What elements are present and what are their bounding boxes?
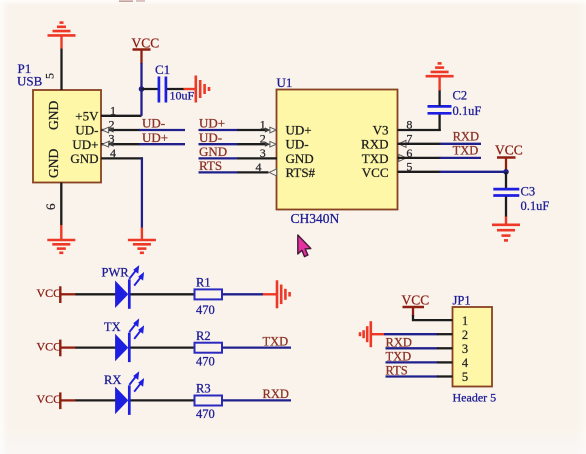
net label RTS at JP1 pin 5 — [386, 364, 408, 378]
svg-text:Header 5: Header 5 — [453, 391, 497, 405]
svg-text:GND: GND — [46, 149, 61, 178]
svg-text:RTS: RTS — [386, 364, 408, 378]
junction node VCC/C3 — [503, 169, 509, 175]
P1 pin 5 wire — [60, 48, 62, 90]
power port VCC (top) — [132, 36, 160, 65]
capacitor C1 — [142, 77, 185, 103]
svg-text:RXD: RXD — [361, 137, 388, 152]
svg-text:1: 1 — [462, 314, 468, 328]
svg-text:470: 470 — [196, 354, 215, 368]
svg-text:470: 470 — [196, 303, 215, 317]
svg-text:TXD: TXD — [263, 334, 289, 348]
LED PWR label — [102, 266, 130, 280]
P1 pin 3 wire — [101, 143, 185, 145]
svg-text:R3: R3 — [196, 382, 211, 396]
svg-text:UD+: UD+ — [286, 123, 312, 138]
U1 pin 4 wire — [199, 171, 269, 173]
svg-text:R2: R2 — [196, 329, 211, 343]
net label UD- at P1 pin 2 — [142, 116, 165, 131]
svg-text:TXD: TXD — [453, 143, 479, 157]
svg-text:C3: C3 — [521, 185, 536, 199]
U1 pin 3 wire — [199, 157, 278, 159]
P1 pin 1 wire — [101, 115, 142, 117]
connector P1 box — [33, 90, 101, 183]
header JP1 box — [453, 307, 493, 387]
C3 value label 0.1uF — [521, 199, 550, 213]
LED PWR (D1) — [75, 265, 195, 309]
svg-text:UD-: UD- — [142, 116, 165, 131]
P1 pin 5 number — [43, 73, 57, 79]
U1 designator label — [277, 75, 293, 90]
JP1 designator label — [453, 294, 471, 308]
P1 pin 4 number — [110, 146, 116, 160]
svg-text:3: 3 — [462, 342, 468, 356]
net label UD+ at P1 pin 3 — [142, 130, 168, 145]
ground at C1 (sideways right) — [184, 76, 210, 103]
resistor R3 — [195, 396, 292, 406]
capacitor C2 — [428, 90, 452, 113]
power port VCC (LED TX row) — [37, 339, 76, 356]
U1 pin 1 number — [260, 117, 266, 131]
JP1 pin 2 wire — [384, 333, 453, 335]
svg-text:5: 5 — [462, 370, 468, 384]
U1 pin 7 wire — [398, 143, 482, 145]
svg-text:TXD: TXD — [386, 349, 412, 363]
C1 designator label — [155, 62, 170, 77]
svg-text:TXD: TXD — [362, 151, 389, 166]
ground at R1 (sideways right) — [263, 280, 290, 308]
svg-text:RXD: RXD — [386, 335, 412, 349]
P1 pin 4 name GND — [70, 151, 98, 166]
P1 pin 6 wire — [60, 183, 62, 226]
svg-text:V3: V3 — [373, 123, 389, 138]
U1 pin 6 number — [406, 146, 412, 160]
power port VCC (JP1) — [402, 293, 430, 317]
power port VCC (right) — [495, 143, 523, 172]
svg-text:VCC: VCC — [37, 392, 62, 406]
JP1 pin 1 wire — [413, 315, 453, 320]
U1 comment label CH340N — [291, 211, 340, 226]
svg-text:470: 470 — [196, 407, 215, 421]
svg-text:4: 4 — [462, 356, 469, 370]
svg-text:UD+: UD+ — [199, 116, 225, 131]
net label TXD (LED row) — [263, 334, 289, 348]
power port VCC (LED RX row) — [37, 392, 76, 409]
P1 pin 2 wire — [101, 129, 185, 131]
svg-text:2: 2 — [462, 328, 468, 342]
U1 pin 5 name VCC — [362, 165, 389, 180]
R3 designator label — [196, 382, 211, 396]
ground at P1 pin 5 (inverted earth) — [48, 23, 76, 49]
JP1 pin 2 number — [462, 328, 468, 342]
U1 pin 1 wire — [199, 129, 267, 131]
svg-text:UD-: UD- — [75, 123, 98, 138]
svg-text:VCC: VCC — [132, 36, 160, 51]
svg-text:10uF: 10uF — [170, 89, 195, 103]
ground at P1 pin 6 — [47, 225, 75, 253]
svg-text:VCC: VCC — [495, 143, 523, 158]
U1 pin 7 name RXD — [361, 137, 388, 152]
C2 designator label — [453, 89, 468, 103]
svg-text:RX: RX — [104, 373, 121, 387]
power port VCC (LED PWR row) — [37, 286, 76, 303]
C3 designator label — [521, 185, 536, 199]
LED RX label — [104, 373, 121, 387]
P1 pin 6 name GND (rotated) — [46, 149, 61, 178]
svg-text:PWR: PWR — [102, 266, 130, 280]
svg-text:5: 5 — [43, 73, 57, 79]
wire VCC to P1 pin 1 — [140, 63, 142, 116]
svg-text:JP1: JP1 — [453, 294, 471, 308]
ground at P1 pin 4 net — [128, 228, 156, 253]
R2 value label 470 — [196, 354, 215, 368]
JP1 pin 4 wire — [386, 361, 453, 363]
R2 designator label — [196, 329, 211, 343]
U1 pin 1 bidirectional arrow — [265, 127, 276, 133]
JP1 pin 5 wire — [386, 375, 453, 377]
svg-text:USB: USB — [17, 74, 43, 89]
mouse cursor — [298, 235, 311, 257]
net label UD- at U1 pin 2 — [199, 130, 222, 145]
svg-text:0.1uF: 0.1uF — [521, 199, 550, 213]
svg-text:RTS: RTS — [199, 158, 222, 173]
junction node VCC/C1 — [139, 86, 145, 92]
LED TX label — [104, 320, 121, 334]
U1 pin 8 number — [406, 117, 412, 131]
svg-text:6: 6 — [43, 203, 58, 210]
U1 pin 5 wire — [398, 171, 507, 173]
net label RTS at U1 pin 4 — [199, 158, 222, 173]
U1 pin 4 name RTS# — [286, 165, 316, 180]
svg-text:UD-: UD- — [286, 137, 309, 152]
U1 pin 3 name GND — [286, 151, 314, 166]
JP1 pin 5 number — [462, 370, 468, 384]
svg-text:GND: GND — [70, 151, 98, 166]
svg-text:GND: GND — [199, 144, 227, 159]
svg-text:RXD: RXD — [263, 387, 289, 401]
svg-text:UD+: UD+ — [142, 130, 168, 145]
net label TXD at U1 pin 6 — [453, 143, 479, 157]
P1 pin 2 name UD- — [75, 123, 98, 138]
JP1 pin 3 wire — [386, 347, 453, 349]
svg-text:CH340N: CH340N — [291, 211, 340, 226]
svg-text:C2: C2 — [453, 89, 468, 103]
net label RXD at JP1 pin 3 — [386, 335, 412, 349]
LED TX (D2) — [75, 318, 195, 362]
svg-text:RXD: RXD — [453, 130, 479, 144]
svg-text:R1: R1 — [196, 276, 211, 290]
R1 value label 470 — [196, 303, 215, 317]
svg-text:VCC: VCC — [362, 165, 389, 180]
P1 pin 1 name +5V — [75, 109, 99, 124]
C2 value label 0.1uF — [453, 104, 482, 118]
ground at C3 — [492, 217, 520, 241]
svg-text:U1: U1 — [277, 75, 293, 90]
U1 pin 1 name UD+ — [286, 123, 312, 138]
svg-text:RTS#: RTS# — [286, 165, 316, 180]
ground at JP1 pin 2 (sideways left) — [360, 321, 384, 347]
U1 pin 2 name UD- — [286, 137, 309, 152]
svg-text:GND: GND — [286, 151, 314, 166]
capacitor C3 — [493, 172, 519, 217]
P1 pin 3 number — [109, 132, 115, 146]
U1 pin 8 wire — [398, 115, 441, 132]
LED RX (D3) — [75, 371, 195, 415]
P1 pin 3 bidirectional arrow — [102, 141, 113, 147]
net label GND at U1 pin 3 — [199, 144, 227, 159]
JP1 pin 1 number — [462, 314, 468, 328]
U1 pin 5 number — [406, 160, 412, 174]
U1 pin 8 name V3 — [373, 123, 389, 138]
svg-text:TX: TX — [104, 320, 121, 334]
resistor R2 — [195, 343, 292, 353]
U1 pin 4 output arrow — [269, 169, 276, 176]
JP1 comment label Header 5 — [453, 391, 497, 405]
U1 pin 6 wire — [398, 157, 482, 159]
P1 pin 6 number — [43, 203, 58, 210]
svg-text:0.1uF: 0.1uF — [453, 104, 482, 118]
U1 pin 6 name TXD — [362, 151, 389, 166]
P1 pin 1 number — [110, 103, 116, 117]
U1 pin 2 wire — [199, 143, 267, 145]
svg-text:GND: GND — [46, 101, 61, 130]
P1 pin 2 number — [109, 118, 115, 132]
P1 pin 5 name GND (rotated) — [46, 101, 61, 130]
resistor R1 — [195, 289, 264, 299]
C1 value label 10uF — [170, 89, 195, 103]
net label TXD at JP1 pin 4 — [386, 349, 412, 363]
R1 designator label — [196, 276, 211, 290]
U1 pin 3 number — [260, 146, 266, 160]
net label UD+ at U1 pin 1 — [199, 116, 225, 131]
P1 pin 4 wire — [101, 157, 143, 228]
U1 pin 2 bidirectional arrow — [265, 141, 276, 147]
net label RXD at U1 pin 7 — [453, 130, 479, 144]
P1 pin 2 bidirectional arrow — [102, 127, 113, 133]
svg-text:UD-: UD- — [199, 130, 222, 145]
svg-text:VCC: VCC — [402, 293, 430, 308]
net label RXD (LED row) — [263, 387, 289, 401]
svg-text:UD+: UD+ — [72, 137, 98, 152]
ground at C2 (inverted earth) — [426, 63, 454, 90]
R3 value label 470 — [196, 407, 215, 421]
JP1 pin 4 number — [462, 356, 469, 370]
svg-text:VCC: VCC — [37, 286, 62, 300]
svg-text:C1: C1 — [155, 62, 170, 77]
U1 pin 2 number — [260, 132, 266, 146]
U1 pin 7 number — [406, 132, 412, 146]
P1 designator label — [18, 61, 32, 76]
U1 pin 4 number — [256, 160, 262, 174]
IC U1 box — [277, 90, 398, 210]
JP1 pin 3 number — [462, 342, 468, 356]
svg-text:+5V: +5V — [75, 109, 99, 124]
P1 comment label USB — [17, 74, 43, 89]
svg-text:VCC: VCC — [37, 339, 62, 353]
P1 pin 3 name UD+ — [72, 137, 98, 152]
U1 pin 7 input arrow — [399, 140, 406, 147]
U1 pin 6 output arrow — [399, 154, 406, 161]
